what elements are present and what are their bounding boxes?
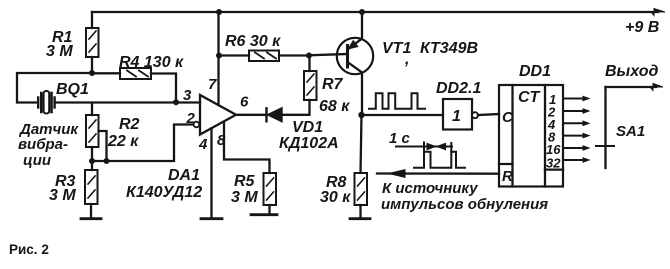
resistor R8 [355,173,368,218]
svg-text:ции: ции [23,152,51,169]
svg-text:4: 4 [198,136,208,153]
label R7 68 к [319,76,350,115]
svg-text:6: 6 [240,94,249,111]
label VD1 КД102А [279,119,339,152]
svg-text:,: , [404,51,409,68]
svg-text:вибра-: вибра- [18,136,68,153]
wire BQ1 to op-amp pin 3 [56,101,200,103]
wire sensor loop (left) [17,73,92,103]
node pin7 column / R6 [216,53,222,59]
svg-text:Выход: Выход [605,63,658,80]
svg-text:К140УД12: К140УД12 [126,184,202,201]
wire VD1 to R7 [308,100,310,115]
ground below pin 4 [201,217,222,220]
waveform 1s reset pulses [396,142,465,167]
wire output arrow [606,84,664,91]
svg-text:R4 130 к: R4 130 к [119,54,184,71]
resistor R5 [264,173,277,214]
svg-text:Рис. 2: Рис. 2 [9,242,49,257]
svg-text:DD2.1: DD2.1 [436,80,481,97]
svg-text:импульсов обнуления: импульсов обнуления [381,196,548,213]
output 16 stub and label [546,142,589,157]
logic inverter DD2.1 [443,99,478,130]
ground below R8 [350,217,370,220]
label R8 30 к [320,174,351,206]
output 4 stub and label [547,117,589,132]
svg-text:DD1: DD1 [519,63,551,80]
svg-text:КТ349В: КТ349В [420,40,478,57]
wire pin 7 to rail [217,12,219,104]
label VT1 КТ349В [382,40,478,68]
label R5 3М [231,173,258,206]
svg-text:C: C [502,109,514,126]
svg-text:R5: R5 [234,173,256,190]
output 8 stub and label [548,130,589,145]
node collector junction [358,112,364,118]
svg-text:2: 2 [186,110,196,127]
svg-text:CT: CT [518,89,541,106]
svg-text:R6 30 к: R6 30 к [225,33,281,50]
wire pin 8 to R5 [224,122,270,173]
output 32 stub and label [546,156,589,171]
svg-text:30 к: 30 к [320,189,351,206]
node rail/pin7 column [216,9,222,15]
resistor R7 [304,56,317,101]
output 2 stub and label [547,105,589,120]
node R6 / R7 / base [306,53,312,59]
svg-text:3: 3 [183,87,192,104]
node rail/VT1 emitter [359,9,365,15]
svg-text:R7: R7 [322,76,344,93]
label К источнику импульсов обнуления [381,180,548,213]
label DA1 К140УД12 [126,167,202,201]
wire reset input to R [377,170,499,178]
svg-text:+9 В: +9 В [625,19,659,36]
op-amp DA1 [194,95,236,135]
svg-text:68 к: 68 к [319,98,350,115]
ground below R3 [81,217,101,220]
svg-text:К источнику: К источнику [382,180,478,197]
wire pin 4 to ground [210,128,212,217]
resistor R1 [86,12,99,73]
svg-text:7: 7 [208,76,217,93]
svg-text:1 с: 1 с [389,130,411,147]
node R2 bottom [89,158,95,164]
label Датчик вибрации [18,121,79,169]
svg-text:3 М: 3 М [231,189,258,206]
wire R2 node to op-amp pin 2 [92,125,194,162]
svg-text:КД102А: КД102А [279,135,339,152]
svg-text:3 М: 3 М [46,43,73,60]
svg-text:SA1: SA1 [616,123,645,140]
svg-text:R2: R2 [119,116,140,133]
svg-text:32: 32 [546,156,561,171]
label R1 3М [46,29,73,60]
svg-text:3 М: 3 М [49,187,76,204]
waveform collector pulses [369,93,425,109]
counter DD1 box [499,85,563,187]
svg-text:22 к: 22 к [107,133,139,150]
wire +9V top rail [92,9,665,16]
diode VD1 [267,108,310,122]
piezo sensor BQ1 [38,91,54,114]
label R2 22 к [107,116,140,150]
label R3 3М [49,173,76,204]
output 1 stub and label [549,92,589,107]
node R2 tap [104,158,110,164]
svg-text:BQ1: BQ1 [56,81,89,98]
svg-text:1: 1 [452,108,461,125]
wire collector node to DD2.1 input [362,114,444,116]
wire base to VT1 [309,54,348,55]
resistor R6 [219,51,309,62]
switch SA1 [596,87,614,168]
svg-text:VD1: VD1 [292,119,323,136]
transistor VT1 [337,12,373,115]
resistor R2 [86,103,107,161]
wire collector to R8 [361,115,362,173]
wire DD2.1 out to counter C [478,114,499,115]
svg-text:DA1: DA1 [168,167,200,184]
node R4 / pin3 wire [173,99,179,105]
svg-text:R: R [502,168,513,185]
wire op-amp output pin 6 [236,114,265,116]
resistor R3 [85,161,98,218]
resistor R4 [92,68,176,102]
node A: R1 bottom / R4 / sensor loop [89,70,95,76]
ground below R5 [251,213,277,216]
